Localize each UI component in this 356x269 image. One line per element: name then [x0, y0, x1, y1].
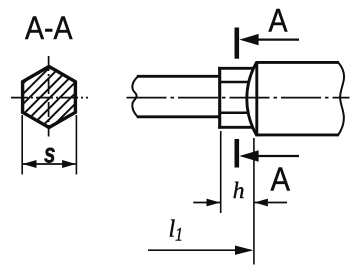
dimension h left arrow	[193, 199, 220, 207]
svg-text:A-A: A-A	[25, 10, 73, 46]
cylinder break line (right)	[338, 62, 344, 134]
svg-text:1: 1	[175, 225, 183, 246]
section arrow top	[239, 34, 299, 45]
hexagon outline (section A-A)	[23, 67, 76, 128]
section cut line top	[235, 28, 240, 59]
cylinder bottom edge	[256, 133, 340, 136]
svg-text:h: h	[233, 178, 245, 204]
hex boss bottom edge	[218, 126, 252, 129]
extension line h right / l1 right	[253, 138, 255, 265]
extension line s right	[75, 115, 77, 175]
cylinder left edge	[255, 61, 258, 136]
hex boss top edge	[218, 67, 252, 70]
extension line h left	[220, 131, 222, 213]
axis center line (shaft)	[127, 97, 350, 99]
svg-text:A: A	[271, 160, 291, 197]
dimension line l1 with arrow	[148, 246, 253, 255]
shaft break line (left)	[132, 76, 138, 117]
section cut line bottom	[235, 139, 240, 168]
hex boss chamfer arc	[247, 63, 257, 136]
dimension line s with arrows	[23, 160, 76, 168]
cylinder top edge	[256, 61, 340, 64]
center line vertical (section view)	[48, 56, 50, 137]
shaft outline top	[137, 75, 221, 78]
hex boss face line lower	[220, 112, 249, 115]
extension line s left	[21, 115, 23, 175]
hatching of hexagon section	[2, 0, 182, 138]
svg-text:A: A	[269, 2, 289, 38]
hex boss face line upper	[220, 81, 249, 84]
shaft outline bottom	[137, 115, 221, 118]
section arrow bottom	[239, 150, 299, 161]
svg-text:s: s	[44, 138, 56, 169]
center line horizontal (section view)	[11, 97, 88, 99]
hex boss left edge	[218, 67, 221, 129]
dimension h right arrow	[254, 199, 287, 207]
